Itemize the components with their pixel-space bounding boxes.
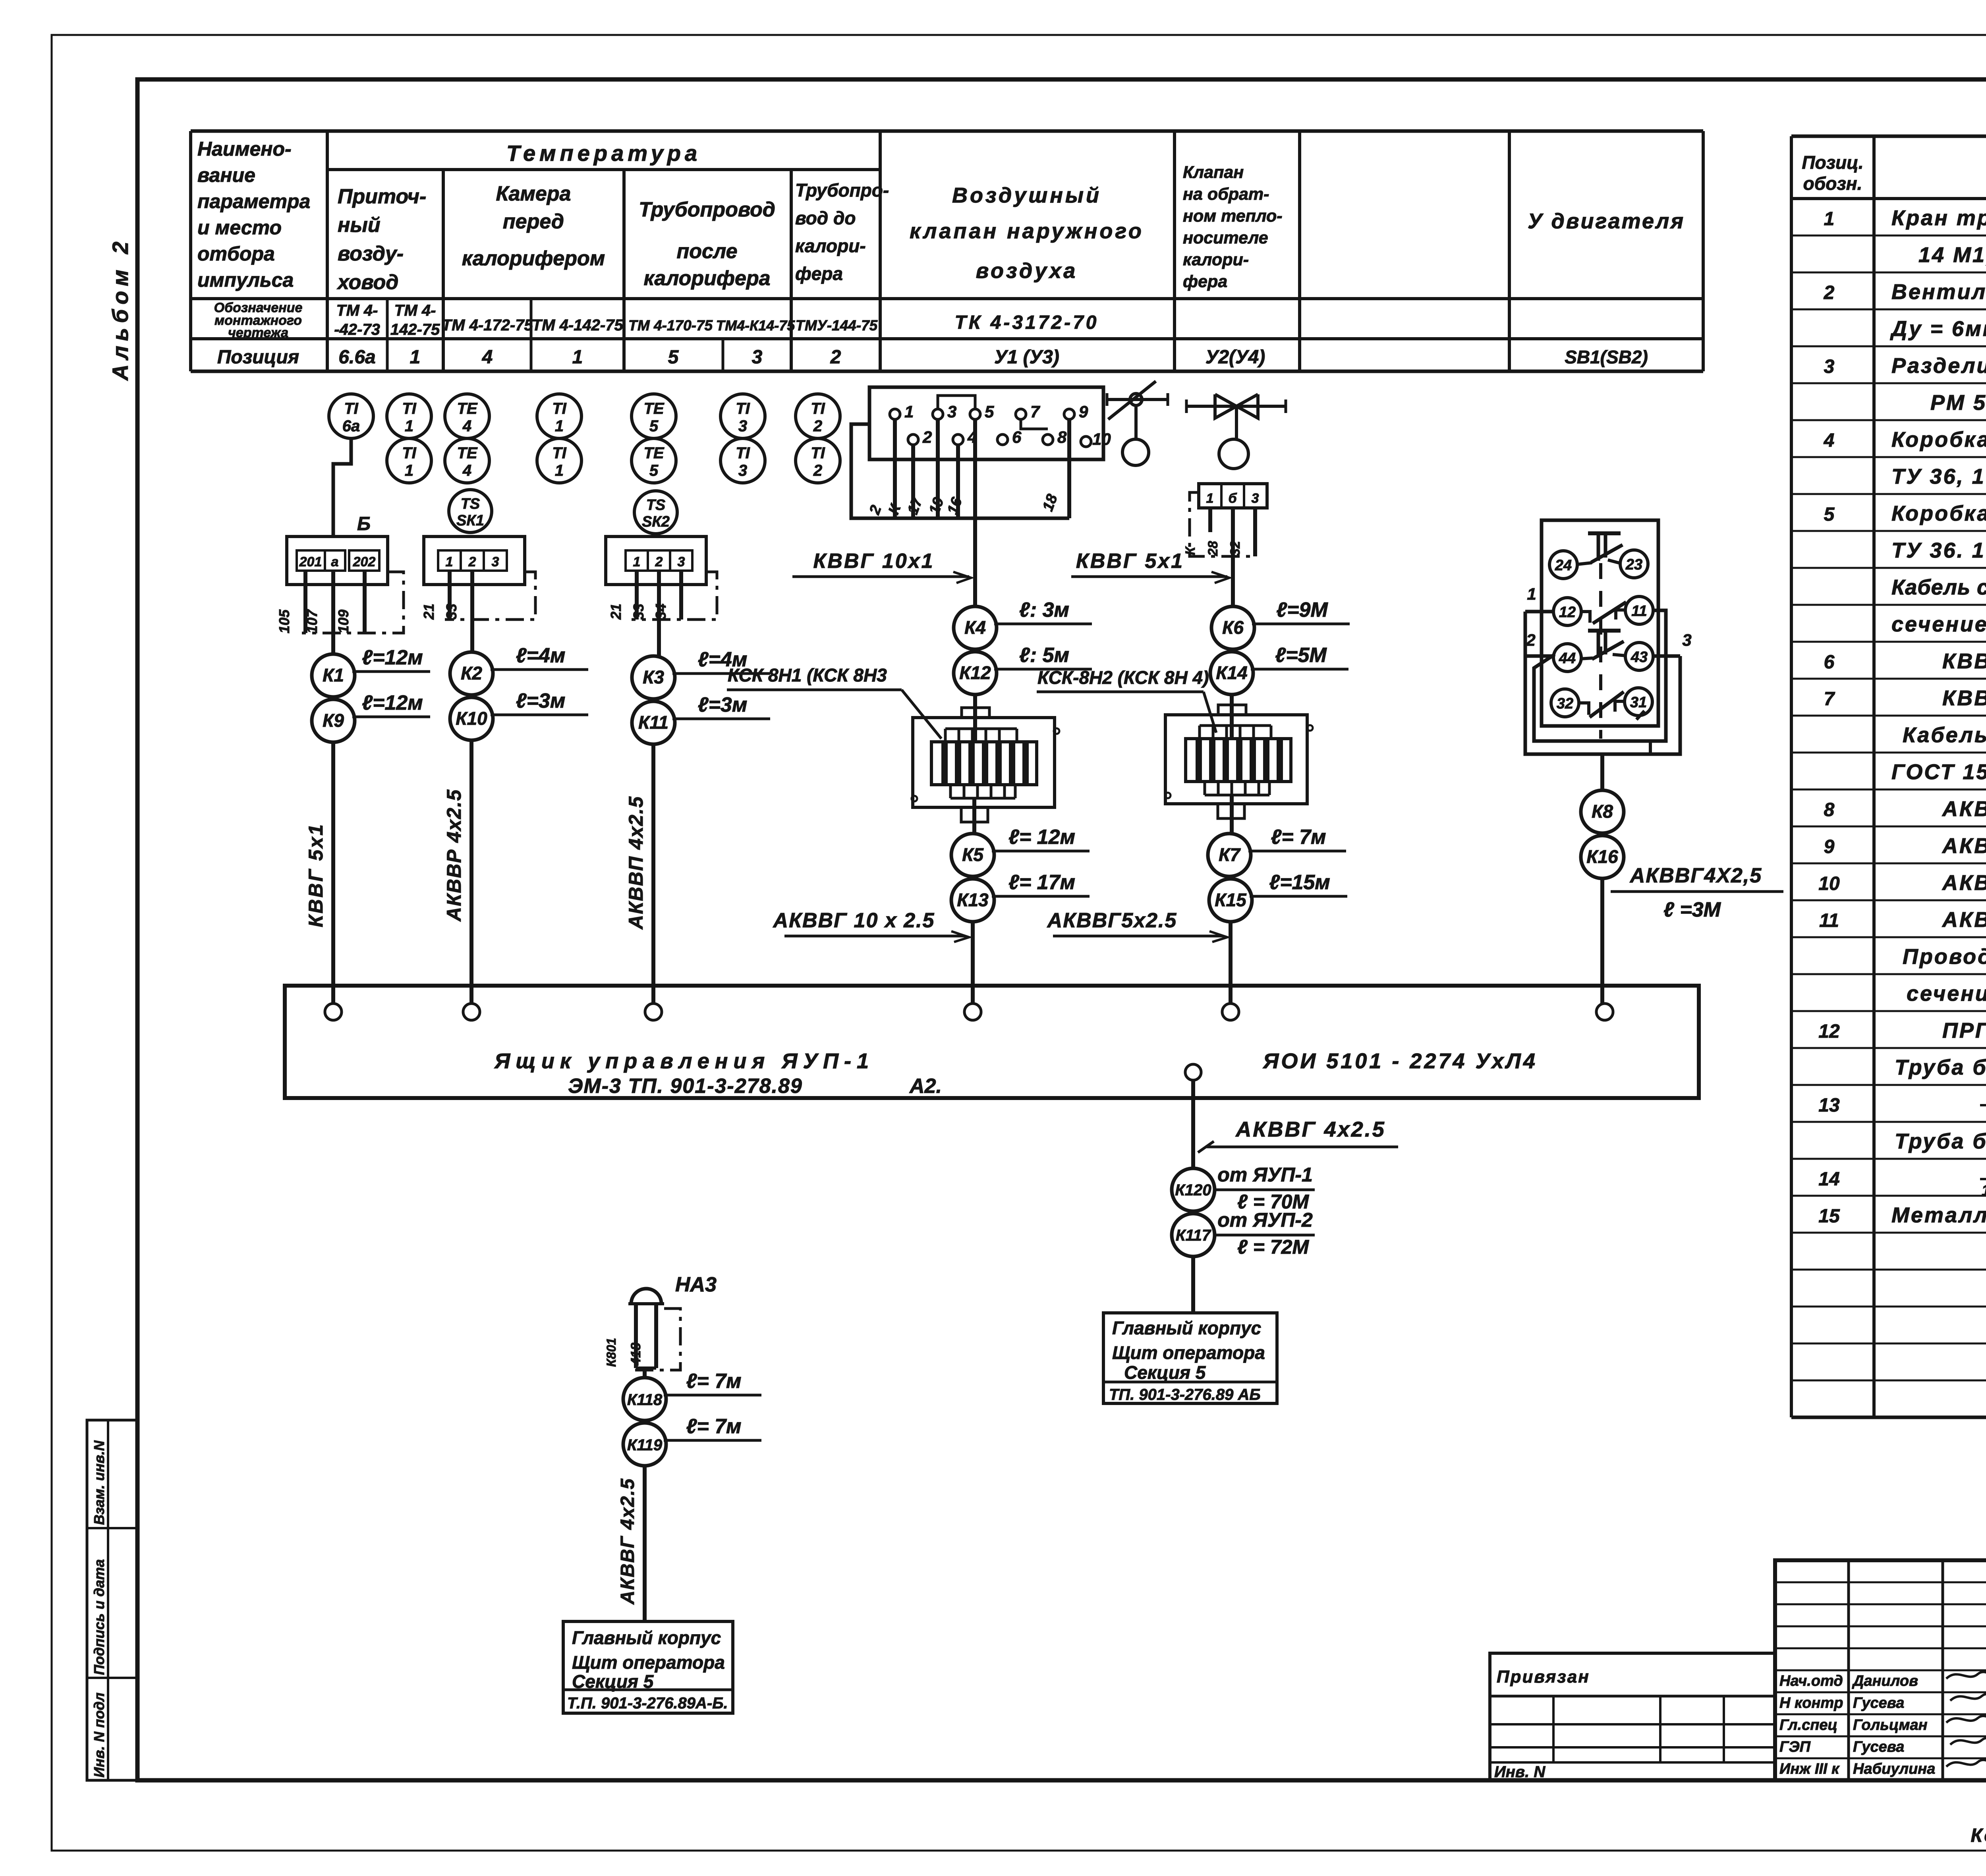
svg-text:на обрат-: на обрат- [1183, 185, 1269, 204]
svg-text:фера: фера [795, 263, 843, 284]
svg-text:чертежа: чертежа [228, 325, 288, 340]
svg-text:14: 14 [1818, 1169, 1839, 1190]
wire K117 to operator panel box [1191, 1256, 1195, 1313]
svg-text:Трубопро-: Трубопро- [795, 180, 889, 201]
svg-text:ТМ 4-142-75: ТМ 4-142-75 [532, 317, 623, 334]
svg-text:ТМ 4-: ТМ 4- [336, 302, 378, 319]
svg-text:Инв. N: Инв. N [1494, 1763, 1546, 1781]
svg-text:1: 1 [1206, 491, 1214, 506]
cable marker K3 [632, 648, 770, 699]
wire KSK-8N2 to K7 [1230, 795, 1234, 834]
svg-text:1: 1 [1527, 585, 1536, 603]
wire K10 down to YaUP box, cable AKVVR 4x2.5 [443, 740, 471, 1004]
svg-text:а: а [331, 554, 339, 569]
terminal box of outdoor air valve Y1 [869, 387, 1111, 459]
svg-text:SB1(SB2): SB1(SB2) [1565, 347, 1648, 367]
svg-text:К3: К3 [643, 667, 664, 687]
svg-text:ℓ: 3м: ℓ: 3м [1019, 598, 1069, 621]
svg-text:КВВГ 10х1 кв. мм: КВВГ 10х1 кв. мм [1942, 686, 1986, 710]
instrument TI-3 pair [721, 394, 765, 483]
svg-text:Позиц.: Позиц. [1802, 152, 1863, 173]
svg-text:44: 44 [1559, 650, 1576, 667]
svg-text:10: 10 [1818, 873, 1840, 894]
parameter header table [191, 131, 1703, 371]
svg-text:ℓ = 72М: ℓ = 72М [1237, 1236, 1309, 1258]
svg-text:ТК 4-3172-70: ТК 4-3172-70 [955, 312, 1099, 333]
svg-text:ховод: ховод [336, 271, 398, 294]
signature rows [1779, 1672, 1986, 1777]
svg-text:НА3: НА3 [675, 1273, 717, 1296]
cable marker K11 [632, 693, 770, 744]
svg-text:Трубопровод: Трубопровод [639, 198, 775, 221]
svg-text:ℓ= 12м: ℓ= 12м [1008, 826, 1075, 849]
label KSK 8N1 [727, 665, 941, 739]
svg-text:1: 1 [1824, 208, 1835, 230]
svg-text:-42-73: -42-73 [334, 321, 380, 338]
svg-text:Вентиль запорный муфтовый: Вентиль запорный муфтовый [1891, 280, 1986, 304]
svg-text:ℓ=12м: ℓ=12м [362, 691, 423, 714]
svg-text:4: 4 [482, 347, 493, 368]
instrument TS-SK2 [634, 491, 677, 534]
svg-text:ТІ: ТІ [402, 444, 416, 462]
svg-text:К9: К9 [323, 710, 344, 731]
svg-text:105: 105 [276, 609, 292, 633]
svg-text:К12: К12 [959, 662, 991, 683]
svg-text:2: 2 [830, 347, 841, 368]
svg-text:ТІ: ТІ [402, 400, 416, 417]
svg-text:8: 8 [1824, 799, 1835, 820]
bus under valve terminal box [851, 424, 1069, 518]
svg-text:фера: фера [1183, 272, 1227, 291]
svg-text:12 х 18Н 10Т: 12 х 18Н 10Т [1982, 1182, 1986, 1199]
svg-text:13: 13 [1818, 1095, 1840, 1116]
svg-text:К120: К120 [1175, 1181, 1211, 1199]
svg-text:после: после [676, 240, 737, 263]
cable marker K10 [450, 689, 588, 740]
svg-text:Щит оператора: Щит оператора [572, 1652, 725, 1673]
wires under box B with core numbers 105 107 109 [276, 571, 365, 654]
svg-text:2: 2 [468, 554, 476, 569]
svg-text:Привязан: Привязан [1497, 1667, 1590, 1687]
wire K14 to connector KSK-8N2 [1230, 695, 1234, 739]
svg-text:ГОСТ 1508-78Е, сечением:: ГОСТ 1508-78Е, сечением: [1891, 760, 1986, 784]
svg-text:8: 8 [1057, 428, 1067, 446]
svg-text:Альбом 2: Альбом 2 [108, 237, 133, 381]
svg-text:1: 1 [410, 347, 421, 368]
svg-text:ТІ: ТІ [811, 444, 825, 462]
svg-text:калори-: калори- [1183, 250, 1249, 269]
cable label AKVVG 5x2.5 [1047, 909, 1227, 942]
cable marker K4 [954, 598, 1092, 649]
svg-text:импульса: импульса [197, 269, 294, 291]
motor limit switch SB1(SB2) [1542, 520, 1658, 739]
svg-text:АКВВГ 5х2.5 кв. мм: АКВВГ 5х2.5 кв. мм [1942, 834, 1986, 858]
svg-text:5: 5 [985, 402, 994, 421]
svg-text:15: 15 [1818, 1206, 1840, 1227]
svg-text:ℓ=3м: ℓ=3м [516, 689, 566, 712]
svg-text:ТП. 901-3-276.89 АБ: ТП. 901-3-276.89 АБ [1109, 1386, 1261, 1403]
svg-text:ТУ 36. 1753-75: ТУ 36. 1753-75 [1891, 538, 1986, 562]
wire K15 down to YaUP box [1229, 922, 1233, 1004]
svg-text:Воздушный: Воздушный [952, 183, 1101, 207]
cable marker K5 [951, 826, 1090, 876]
svg-text:6а: 6а [342, 417, 360, 435]
cable marker K2 [450, 644, 588, 695]
svg-text:3: 3 [1252, 491, 1259, 506]
svg-text:воздуха: воздуха [976, 259, 1078, 283]
cable marker K13 [951, 871, 1090, 922]
bracket of box 1-b-3 [1190, 492, 1251, 556]
bill of materials rows [1818, 206, 1986, 1227]
svg-text:107: 107 [304, 609, 320, 633]
svg-text:Гл.спец: Гл.спец [1779, 1717, 1837, 1733]
svg-text:14 М1, Ду = 15 мм,: 14 М1, Ду = 15 мм, [1918, 243, 1986, 267]
svg-text:от ЯУП-1: от ЯУП-1 [1217, 1164, 1313, 1186]
svg-text:ТS: ТS [461, 496, 480, 512]
svg-text:2: 2 [1824, 282, 1835, 303]
svg-text:ЯОИ 5101 - 2274 УхЛ4: ЯОИ 5101 - 2274 УхЛ4 [1262, 1049, 1538, 1073]
svg-text:ТМ 4-170-75: ТМ 4-170-75 [628, 317, 713, 334]
svg-text:ТУ 36, 1753-75: ТУ 36, 1753-75 [1891, 465, 1986, 488]
svg-text:АКВВГ 4х2.5: АКВВГ 4х2.5 [617, 1478, 638, 1605]
wire limit switch to K8 [1600, 754, 1604, 790]
svg-text:Коробка соединительная КСК-16: Коробка соединительная КСК-16, [1891, 502, 1986, 525]
svg-text:Инв. N подл: Инв. N подл [91, 1693, 107, 1778]
svg-text:ЭМ-3 ТП. 901-3-278.89: ЭМ-3 ТП. 901-3-278.89 [568, 1075, 803, 1098]
svg-text:1: 1 [572, 347, 583, 368]
connector box KSK-8N1 [912, 708, 1059, 822]
svg-text:32: 32 [1557, 695, 1573, 712]
svg-text:клапан наружного: клапан наружного [910, 219, 1144, 243]
svg-text:6.6а: 6.6а [338, 347, 375, 368]
instrument TI-1 pair A [387, 394, 431, 483]
svg-text:12: 12 [1559, 604, 1576, 621]
wire KSK-8N1 to K5 [972, 798, 976, 834]
svg-text:Секция 5: Секция 5 [572, 1671, 654, 1692]
album label ALBOM 2 [108, 237, 133, 381]
svg-text:33: 33 [630, 604, 647, 620]
svg-text:К16: К16 [1586, 846, 1618, 867]
svg-text:6: 6 [1824, 652, 1835, 673]
svg-text:ГЭП: ГЭП [1779, 1739, 1811, 1755]
cable marker K6 [1211, 598, 1350, 649]
svg-text:К10: К10 [456, 708, 487, 729]
svg-text:К801: К801 [604, 1338, 618, 1367]
svg-text:4: 4 [1824, 430, 1835, 451]
svg-text:КВВГ 5х1: КВВГ 5х1 [1076, 550, 1184, 573]
junction box SK1 [424, 537, 525, 585]
svg-text:ПРГИ 1кв. мм: ПРГИ 1кв. мм [1942, 1019, 1986, 1042]
svg-text:калори-: калори- [795, 235, 866, 256]
svg-text:К13: К13 [957, 890, 989, 910]
svg-text:ℓ=5М: ℓ=5М [1275, 644, 1327, 667]
instrument TS-SK1 [449, 490, 492, 533]
svg-text:33: 33 [443, 604, 460, 620]
lead routing loops of limit switch [1525, 610, 1680, 754]
svg-text:1: 1 [405, 462, 413, 479]
svg-text:АКВВГ 10х2.5 кв. мм: АКВВГ 10х2.5 кв. мм [1942, 908, 1986, 932]
wires under box 1-b-3 with cores N 28 32 [1183, 508, 1255, 606]
wire bus to K4 [973, 518, 977, 606]
svg-text:ном тепло-: ном тепло- [1183, 207, 1283, 226]
svg-text:32: 32 [1228, 541, 1243, 556]
svg-text:К1: К1 [323, 665, 344, 685]
svg-text:РМ 5319: РМ 5319 [1930, 391, 1986, 415]
header table texts [197, 138, 1685, 368]
svg-text:ТІ: ТІ [552, 400, 566, 417]
control box YaUP-1 [285, 986, 1699, 1098]
wire K9 down to YaUP box, cable KVVG 5x1 [305, 742, 333, 1004]
svg-text:ТІ: ТІ [736, 400, 750, 417]
svg-text:Кран трехходовой муфтовый: Кран трехходовой муфтовый [1891, 206, 1986, 230]
svg-text:Нач.отд: Нач.отд [1779, 1673, 1843, 1689]
svg-text:ТМ 4-172-75: ТМ 4-172-75 [442, 317, 533, 334]
svg-text:Наимено-: Наимено- [197, 138, 292, 160]
cable marker K15 [1209, 871, 1347, 922]
svg-text:Кабель с алюминиевой жилой: Кабель с алюминиевой жилой [1903, 723, 1986, 747]
wires under HA3 with cores K801 418 [604, 1304, 656, 1378]
wire K12 to connector KSK-8N1 [973, 695, 977, 742]
svg-text:К14: К14 [1216, 662, 1247, 683]
svg-text:Щит оператора: Щит оператора [1112, 1342, 1265, 1363]
svg-text:1: 1 [405, 417, 413, 435]
svg-text:202: 202 [353, 554, 376, 569]
svg-text:Секция 5: Секция 5 [1124, 1362, 1206, 1383]
wires under SK1 with core numbers 21 33 [421, 571, 472, 652]
svg-text:1: 1 [555, 417, 564, 435]
cable marker K117 [1172, 1209, 1315, 1258]
svg-text:1: 1 [904, 402, 914, 421]
svg-text:К6: К6 [1222, 617, 1244, 638]
terminal on bottom edge of YaUP-1 (YaOI feeder) [1185, 1064, 1201, 1168]
cable marker K14 [1210, 644, 1348, 695]
shut-off valve pos.2 [1186, 394, 1286, 469]
cable label AKVVG 4x2.5 (YaOI feeder) [1198, 1117, 1398, 1152]
svg-text:ℓ=9М: ℓ=9М [1276, 598, 1328, 621]
wire K11 down to YaUP box, cable AKVVP 4x2.5 [625, 744, 653, 1004]
svg-text:ТМУ-144-75: ТМУ-144-75 [796, 317, 878, 334]
svg-text:Т.П. 901-3-276.89А-Б.: Т.П. 901-3-276.89А-Б. [567, 1695, 728, 1712]
cable marker K1 [312, 646, 430, 697]
three-way cock 14M1 pos.1 [1107, 381, 1168, 465]
cable marker K8 [1581, 790, 1624, 833]
svg-text:12: 12 [1818, 1021, 1840, 1042]
svg-text:параметра: параметра [197, 190, 310, 212]
svg-text:28: 28 [1206, 541, 1221, 556]
svg-text:ℓ= 7м: ℓ= 7м [686, 1415, 741, 1438]
svg-text:Гусева: Гусева [1853, 1695, 1904, 1711]
footer annotations [1971, 1782, 1986, 1847]
instrument TI-6a [329, 394, 373, 438]
svg-text:К15: К15 [1215, 890, 1247, 910]
svg-text:Металлорукав Р3-Ц-Х29: Металлорукав Р3-Ц-Х29 [1891, 1203, 1986, 1227]
svg-text:К8: К8 [1592, 801, 1613, 822]
svg-text:142-75: 142-75 [390, 321, 440, 338]
svg-text:К117: К117 [1176, 1227, 1211, 1244]
svg-text:201: 201 [299, 554, 322, 569]
svg-text:Приточ-: Приточ- [338, 185, 426, 208]
svg-text:ТІ: ТІ [552, 444, 566, 462]
svg-text:3: 3 [1824, 356, 1835, 377]
svg-text:ный: ный [338, 214, 381, 237]
svg-text:2: 2 [1526, 631, 1535, 649]
svg-text:23: 23 [1625, 556, 1642, 573]
svg-text:3: 3 [678, 554, 685, 569]
svg-text:АКВВГ 7х2.5 кв. мм: АКВВГ 7х2.5 кв. мм [1942, 871, 1986, 895]
svg-text:21: 21 [608, 604, 624, 620]
svg-text:Труба бесшовная гост 9941-: Труба бесшовная гост 9941-81 [1895, 1129, 1986, 1153]
destination box operator panel section 5 (right) [1103, 1313, 1277, 1403]
signal lamp HA3 [628, 1273, 717, 1304]
svg-text:А2.: А2. [909, 1075, 942, 1098]
cable marker K16 [1581, 836, 1624, 878]
svg-text:Температура: Температура [506, 141, 701, 166]
svg-text:ℓ= 7м: ℓ= 7м [686, 1370, 741, 1393]
cable marker K7 [1208, 826, 1346, 876]
bracket of HA3 [632, 1309, 680, 1370]
svg-text:21: 21 [421, 604, 437, 620]
svg-text:АКВВР 4х2.5: АКВВР 4х2.5 [443, 789, 465, 922]
svg-text:К2: К2 [461, 663, 482, 683]
svg-text:ТS: ТS [646, 497, 666, 513]
svg-text:ТМ 4-: ТМ 4- [394, 302, 436, 319]
svg-text:5: 5 [1824, 504, 1835, 525]
svg-text:ℓ= 7м: ℓ= 7м [1271, 826, 1326, 849]
svg-text:калорифера: калорифера [643, 267, 770, 290]
svg-text:ТІ: ТІ [344, 400, 358, 417]
svg-text:АКВВГ5х2.5: АКВВГ5х2.5 [1047, 909, 1177, 932]
svg-text:7: 7 [1030, 402, 1040, 421]
attachment sub-block [1490, 1653, 1775, 1781]
svg-text:К4: К4 [964, 617, 986, 638]
svg-text:9: 9 [1079, 402, 1088, 421]
svg-text:сечением:: сечением: [1891, 612, 1986, 636]
connector box KSK-8N2 [1165, 705, 1313, 818]
destination box operator panel section 5 (left) [563, 1621, 733, 1713]
svg-text:3: 3 [492, 554, 499, 569]
svg-text:б: б [1228, 491, 1237, 506]
svg-text:КВВГ 10х1: КВВГ 10х1 [813, 550, 934, 573]
svg-text:Провод гибкий ГОСТ 20520 - 8: Провод гибкий ГОСТ 20520 - 80, [1903, 945, 1986, 969]
svg-text:У1 (У3): У1 (У3) [994, 347, 1059, 368]
svg-text:ТЕ: ТЕ [643, 400, 664, 417]
svg-text:АКВВГ 4х2.5 кв. мм: АКВВГ 4х2.5 кв. мм [1942, 797, 1986, 821]
cable marker K119 [623, 1415, 761, 1466]
svg-text:У двигателя: У двигателя [1528, 209, 1685, 233]
cable label AKVVG 10x2.5 [773, 909, 969, 942]
svg-text:Клапан: Клапан [1183, 163, 1244, 182]
svg-text:Труба бесшовная гост: Труба бесшовная гост [1895, 1056, 1986, 1079]
svg-text:3: 3 [738, 462, 747, 479]
svg-text:ТМ4-К14-75: ТМ4-К14-75 [716, 317, 796, 334]
wires under SK2 with core numbers 21 33 34 [608, 571, 681, 656]
label KSK-8N2 [1037, 667, 1216, 733]
svg-text:ТІ: ТІ [811, 400, 825, 417]
svg-text:3: 3 [738, 417, 747, 435]
cable marker K9 [312, 691, 430, 742]
svg-text:2: 2 [813, 462, 822, 479]
svg-text:К7: К7 [1219, 844, 1241, 865]
svg-text:перед: перед [503, 210, 564, 233]
svg-text:К11: К11 [638, 712, 668, 733]
terminal box 1-b-3 of heat valve [1199, 484, 1267, 508]
svg-text:31: 31 [1630, 694, 1647, 711]
svg-text:2: 2 [813, 417, 822, 435]
svg-text:АКВВГ 10 х 2.5: АКВВГ 10 х 2.5 [773, 909, 935, 932]
junction box SK2 [606, 537, 706, 585]
leads 1 2 3 of limit switch [1525, 585, 1692, 656]
left margin stamp [87, 1420, 137, 1780]
svg-text:3: 3 [752, 347, 763, 368]
svg-text:4: 4 [462, 417, 471, 435]
svg-text:обозн.: обозн. [1803, 173, 1862, 194]
title block [1775, 1560, 1986, 1780]
svg-text:Ящик управления ЯУП-1: Ящик управления ЯУП-1 [494, 1049, 874, 1073]
svg-text:24: 24 [1555, 557, 1572, 574]
instrument TI-1 pair B [537, 394, 582, 483]
svg-text:Копировал Подлевская: Копировал Подлевская [1971, 1825, 1986, 1846]
svg-text:и место: и место [197, 216, 282, 239]
svg-text:ℓ= 17м: ℓ= 17м [1008, 871, 1075, 894]
cable marker K118 [623, 1370, 761, 1421]
cable label KVVG 10x1 [792, 550, 971, 583]
svg-text:10: 10 [1092, 430, 1111, 448]
wire K119 to operator panel box, cable AKVVG 4x2.5 [617, 1466, 645, 1621]
svg-text:5: 5 [668, 347, 679, 368]
bracket of box B [302, 572, 404, 633]
svg-text:Коробка соединительная кск-8: Коробка соединительная кск-8, [1891, 428, 1986, 452]
svg-text:ℓ=15м: ℓ=15м [1269, 871, 1330, 894]
svg-text:Гольцман: Гольцман [1853, 1717, 1928, 1733]
svg-text:калорифером: калорифером [462, 247, 605, 270]
cable marker K120 [1172, 1164, 1315, 1213]
svg-text:Н контр: Н контр [1779, 1695, 1843, 1711]
svg-text:ТЕ: ТЕ [457, 400, 477, 417]
svg-text:ℓ: 5м: ℓ: 5м [1019, 644, 1069, 667]
svg-text:Б: Б [357, 513, 371, 535]
svg-text:11: 11 [1819, 910, 1839, 931]
svg-text:5: 5 [649, 417, 659, 435]
svg-text:SК2: SК2 [642, 513, 670, 530]
svg-text:4: 4 [462, 462, 471, 479]
svg-text:ℓ =3М: ℓ =3М [1663, 898, 1721, 921]
svg-text:АКВВП 4х2.5: АКВВП 4х2.5 [625, 796, 647, 930]
svg-text:2: 2 [922, 428, 932, 446]
cable marker K12 [954, 644, 1092, 695]
svg-text:3: 3 [1682, 631, 1691, 649]
svg-text:Подпись и дата: Подпись и дата [91, 1559, 107, 1675]
svg-text:ℓ=3м: ℓ=3м [698, 693, 748, 716]
terminals on top edge of YaUP-1 [325, 1004, 1613, 1020]
svg-text:43: 43 [1631, 649, 1648, 666]
svg-text:Ду = 6мм, Рр = 25 кгс/см²; 15: Ду = 6мм, Рр = 25 кгс/см²; 15с 13бх 1 [1890, 317, 1986, 341]
svg-text:Главный корпус: Главный корпус [572, 1627, 721, 1648]
svg-text:ТІ: ТІ [736, 444, 750, 462]
svg-text:Набиулина: Набиулина [1853, 1761, 1935, 1778]
svg-text:Разделитель мембранный: Разделитель мембранный [1891, 354, 1986, 378]
svg-text:Взам. инв.N: Взам. инв.N [91, 1440, 107, 1525]
svg-text:2: 2 [655, 554, 663, 569]
svg-text:КВВГ 5х1: КВВГ 5х1 [305, 823, 327, 927]
svg-text:ℓ=4м: ℓ=4м [516, 644, 566, 667]
bill of materials table [1791, 136, 1986, 1417]
svg-text:АКВВГ4Х2,5: АКВВГ4Х2,5 [1629, 864, 1762, 887]
svg-text:1: 1 [446, 554, 453, 569]
svg-text:1: 1 [555, 462, 564, 479]
svg-text:К119: К119 [627, 1436, 663, 1454]
svg-text:КСК 8Н1 (КСК 8Н3: КСК 8Н1 (КСК 8Н3 [728, 665, 887, 685]
wires from valve terminal box to bus [866, 419, 1069, 518]
